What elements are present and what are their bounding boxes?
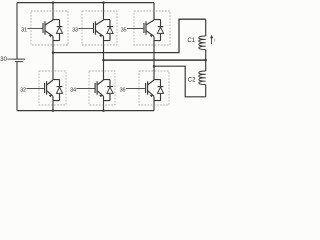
IGBT Q35	[144, 20, 161, 41]
freewheeling diode of 34	[107, 80, 113, 101]
IGBT Q36 emitter arrow	[150, 95, 153, 98]
gate lead of 33	[78, 27, 93, 29]
phase W leg wire (emitter 36 to - bus)	[153, 96, 155, 110]
svg-text:31: 31	[21, 27, 27, 33]
coil C1	[199, 36, 206, 50]
phase W leg wire (collector 35)	[153, 3, 155, 20]
inverter circuit figure	[0, 0, 218, 120]
junction node at (103.5,60.1)	[102, 59, 105, 62]
IGBT Q31	[43, 20, 60, 41]
top DC rail (positive bus)	[17, 2, 154, 4]
freewheeling diode of 36	[158, 80, 164, 101]
junction node at (103.5,110.6)	[102, 109, 105, 112]
svg-text:34: 34	[70, 87, 76, 93]
junction node at (53,52.6)	[52, 51, 55, 54]
IGBT Q34 emitter arrow	[99, 95, 102, 98]
phase U leg wire (emitter 32 to - bus)	[52, 96, 54, 110]
IGBT Q34	[95, 80, 110, 101]
phase W leg wire (emitter 35 to collector 36)	[153, 36, 155, 80]
gate lead of 36	[126, 87, 146, 89]
phase V output wire to node between coils	[104, 59, 206, 61]
junction node at (103.5,2.6)	[102, 1, 105, 4]
phase U leg wire (emitter 31 to collector 32)	[52, 36, 54, 80]
freewheeling diode of 33	[107, 20, 113, 41]
bottom DC rail (negative bus)	[17, 110, 154, 112]
phase V leg wire (emitter 34 to - bus)	[103, 96, 105, 110]
left rail wire (from DC source to - bus)	[16, 62, 18, 111]
svg-text:i: i	[214, 37, 215, 42]
svg-text:33: 33	[72, 27, 78, 33]
freewheeling diode of 35	[158, 20, 164, 41]
junction node at (205.7,60.1)	[204, 59, 207, 62]
svg-text:C2: C2	[188, 77, 196, 83]
freewheeling diode of 31	[57, 20, 63, 41]
phase V leg wire (collector 33)	[103, 3, 105, 20]
svg-text:30: 30	[0, 57, 7, 63]
switching element 34 dashed box	[89, 71, 115, 105]
phase V leg wire (emitter 33 to collector 34)	[103, 36, 105, 80]
svg-text:C1: C1	[187, 38, 195, 44]
IGBT Q35 emitter arrow	[150, 35, 153, 38]
gate lead of 31	[27, 27, 43, 29]
phase U leg wire (collector 31)	[52, 3, 54, 20]
switching element 35 dashed box	[134, 11, 170, 45]
junction node at (53,2.6)	[52, 1, 55, 4]
phase W output wire to coil C2	[154, 66, 206, 97]
switching element 36 dashed box	[139, 71, 169, 105]
gate lead of 35	[127, 27, 144, 29]
gate lead of 34	[76, 87, 95, 89]
svg-text:32: 32	[20, 87, 26, 93]
phase U output wire to coil C1	[53, 19, 206, 52]
gate lead of 32	[26, 87, 44, 89]
IGBT Q31 emitter arrow	[49, 35, 52, 38]
IGBT Q33	[94, 20, 111, 41]
current direction arrow at C1	[211, 38, 213, 45]
switching element 33 dashed box	[82, 11, 117, 45]
svg-text:35: 35	[121, 27, 127, 33]
IGBT Q32 emitter arrow	[49, 95, 52, 98]
IGBT Q36	[146, 80, 161, 101]
freewheeling diode of 32	[57, 80, 63, 101]
DC source 30 (battery)	[13, 59, 26, 62]
wire from coil C1 through node to coil C2	[205, 50, 207, 71]
left rail wire (from + bus to DC source)	[16, 3, 18, 59]
IGBT Q33 emitter arrow	[99, 35, 102, 38]
junction node at (53,110.6)	[52, 109, 55, 112]
switching element 31 dashed box	[31, 11, 68, 45]
wire from coil C2 to bottom return	[205, 85, 207, 97]
switching element 32 dashed box	[39, 71, 66, 105]
svg-text:36: 36	[120, 87, 126, 93]
junction node at (154,66.2)	[153, 65, 156, 68]
IGBT Q32	[45, 80, 60, 101]
wire from top loop into coil C1	[205, 19, 207, 36]
lead line of label 30	[7, 58, 12, 60]
coil C2	[199, 71, 206, 85]
